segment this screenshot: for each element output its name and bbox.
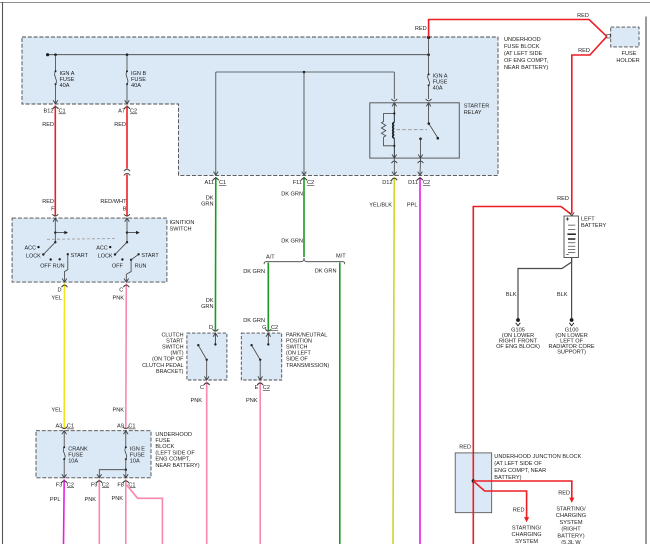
- connector cup P/N G: [265, 329, 271, 331]
- contact OFF (right): [121, 258, 123, 260]
- svg-text:ACC: ACC: [25, 245, 37, 251]
- ignition right blade pivot: [126, 241, 128, 243]
- ground G105: [516, 318, 520, 322]
- label D11 C2: [408, 180, 430, 186]
- label G100: [549, 328, 595, 356]
- svg-text:D: D: [57, 287, 61, 293]
- wire DK GRN M/T branch down: [339, 263, 341, 544]
- svg-text:START: START: [141, 253, 159, 259]
- svg-text:FUSE: FUSE: [622, 51, 637, 57]
- svg-text:TRANSMISSION): TRANSMISSION): [286, 363, 329, 369]
- svg-text:C1: C1: [67, 424, 74, 430]
- terminal arrow relay switch entry: [426, 103, 431, 110]
- svg-text:BLK: BLK: [557, 292, 568, 298]
- svg-text:SIDE OF: SIDE OF: [286, 357, 308, 363]
- svg-text:SWITCH: SWITCH: [286, 345, 308, 351]
- contact LOCK (right): [114, 253, 116, 255]
- ignition right blade: [115, 242, 127, 254]
- underhood junction block box: [455, 453, 492, 513]
- label A7 C2: [118, 109, 137, 115]
- underhood fuse block label (top right): [504, 37, 549, 71]
- contact START (left): [67, 253, 69, 255]
- terminal arrow relay contact exit: [418, 155, 423, 159]
- terminal arrow P/N G: [266, 333, 271, 344]
- battery minus sign: [566, 254, 569, 256]
- svg-text:GRN: GRN: [201, 304, 213, 310]
- connector cup F8: [123, 481, 129, 483]
- wire P/N pivot to E: [259, 360, 261, 380]
- relay coil: [393, 110, 395, 158]
- fuse holder label: [616, 51, 639, 64]
- terminal arrow P/N E: [258, 376, 263, 380]
- wire A3 to crank fuse: [63, 431, 65, 447]
- wire RED branch to starting system: [473, 481, 526, 518]
- svg-text:BATTERY): BATTERY): [557, 533, 584, 539]
- wire RED through junction block: [472, 453, 474, 544]
- terminal arrow D: [62, 279, 67, 283]
- svg-text:FUSE: FUSE: [155, 438, 170, 444]
- fuse IGN A 40A: [55, 72, 57, 85]
- svg-text:CHARGING: CHARGING: [512, 532, 542, 538]
- svg-text:C1: C1: [59, 109, 66, 115]
- svg-text:B12: B12: [44, 109, 54, 115]
- svg-text:YEL/BLK: YEL/BLK: [369, 203, 392, 209]
- wire feed to A11: [215, 72, 217, 175]
- label G C2: [262, 325, 278, 331]
- connector cup relay contact exit: [418, 161, 424, 163]
- wire relay coil exit to D12: [393, 158, 395, 175]
- connector cup F11: [301, 178, 307, 180]
- svg-text:STARTING/: STARTING/: [556, 507, 586, 513]
- svg-text:D: D: [209, 325, 213, 331]
- fuse IGN A 40A (relay feed): [428, 74, 430, 85]
- terminal arrow B12: [53, 100, 58, 104]
- park/neutral position switch box: [241, 333, 281, 380]
- node ignition left: [54, 231, 56, 233]
- fuse IGN E 10A: [125, 448, 127, 460]
- svg-text:BATTERY: BATTERY: [581, 223, 607, 229]
- ignition right feed arrow: [127, 232, 137, 234]
- svg-text:RED: RED: [558, 491, 570, 497]
- ignition switch box: [12, 218, 167, 282]
- svg-text:CHARGING: CHARGING: [556, 513, 586, 519]
- terminal arrow D11: [418, 172, 423, 176]
- svg-text:OFF: OFF: [112, 264, 124, 270]
- terminal arrow A11: [214, 172, 219, 176]
- ignition left feed arrow: [55, 232, 65, 234]
- connector cup P/N E: [257, 383, 263, 385]
- svg-text:40A: 40A: [433, 86, 443, 92]
- svg-text:SUPPORT): SUPPORT): [557, 350, 586, 356]
- node junction block: [472, 479, 475, 482]
- node bus/IGN A fuse: [54, 53, 57, 56]
- terminal arrow relay coil exit: [392, 155, 397, 159]
- svg-text:10A: 10A: [68, 459, 78, 465]
- terminal arrow clutch D: [213, 333, 218, 344]
- svg-text:NEAR BATTERY): NEAR BATTERY): [155, 463, 199, 469]
- label F8 C1: [117, 482, 135, 488]
- svg-text:PNK: PNK: [190, 398, 202, 404]
- labels ignition left positions: [25, 245, 89, 269]
- fuse CRANK 10A: [63, 448, 65, 460]
- ignition switch label: [170, 220, 195, 233]
- terminal arrow F8: [124, 474, 129, 478]
- svg-text:POSITION: POSITION: [286, 338, 312, 344]
- svg-text:DK GRN: DK GRN: [281, 239, 303, 245]
- contact LOCK (left): [42, 253, 44, 255]
- connector cup A3: [61, 427, 67, 429]
- svg-text:(ON TOP OF: (ON TOP OF: [152, 357, 184, 363]
- ignition left common stem: [54, 218, 56, 242]
- svg-text:PPL: PPL: [407, 203, 418, 209]
- terminal arrow D12: [392, 172, 397, 176]
- svg-text:CLUTCH: CLUTCH: [161, 332, 183, 338]
- page border top: [0, 2, 650, 4]
- svg-text:GRN: GRN: [201, 202, 213, 208]
- ignition left START wire to D: [65, 254, 68, 282]
- svg-text:ENG COMPT, NEAR: ENG COMPT, NEAR: [494, 468, 546, 474]
- svg-text:C2: C2: [307, 180, 314, 186]
- svg-text:STARTER: STARTER: [464, 104, 490, 110]
- svg-text:C2: C2: [271, 325, 278, 331]
- connector cup F9 (overlay): [96, 481, 102, 483]
- svg-text:B: B: [123, 207, 127, 213]
- label A11 C1: [204, 180, 226, 186]
- P/N blade tip: [250, 344, 252, 346]
- ignition right common stem: [126, 218, 128, 242]
- P/N contact (from G): [267, 343, 269, 345]
- svg-text:OF ENG BLOCK): OF ENG BLOCK): [496, 344, 540, 350]
- connector cup F8 (overlay): [123, 481, 129, 483]
- svg-text:A3: A3: [55, 424, 62, 430]
- contact ACC (right): [109, 246, 111, 248]
- bus end dot: [46, 53, 49, 56]
- label DK GRN (A11 bottom): [201, 298, 214, 310]
- wire fuse IGN A to B12: [55, 84, 57, 104]
- P/N blade: [252, 345, 261, 360]
- node coil bottom: [393, 145, 395, 147]
- connector cup A9: [123, 427, 129, 429]
- connector cup relay coil exit: [391, 161, 397, 163]
- connector cup clutch D: [213, 329, 219, 331]
- svg-text:LOCK: LOCK: [26, 254, 41, 260]
- connector cup ignition F: [52, 214, 58, 216]
- battery plates: [567, 225, 576, 252]
- svg-text:SYSTEM: SYSTEM: [515, 539, 538, 544]
- svg-text:E: E: [255, 385, 259, 391]
- svg-text:A9: A9: [117, 424, 124, 430]
- wire clutch pivot to C: [206, 360, 208, 380]
- clutch blade pivot: [206, 359, 208, 361]
- svg-text:C2: C2: [130, 109, 137, 115]
- relay switch pivot: [428, 110, 430, 123]
- relay resistor (parallel): [381, 114, 394, 146]
- node ignition right: [126, 231, 128, 233]
- wire RED fuse holder to battery: [572, 36, 607, 213]
- wire BLK battery negative: [518, 258, 572, 319]
- connector cup F3: [61, 481, 67, 483]
- svg-text:C: C: [200, 385, 204, 391]
- wire DK GRN F11 to branch: [303, 177, 305, 257]
- svg-text:PARK/NEUTRAL: PARK/NEUTRAL: [286, 332, 327, 338]
- starter relay box: [370, 103, 460, 158]
- svg-text:C1: C1: [219, 180, 226, 186]
- ignition left blade pivot: [54, 241, 56, 243]
- svg-text:A11: A11: [204, 180, 214, 186]
- label F3 C2: [56, 482, 74, 488]
- terminal arrow clutch C: [204, 376, 209, 380]
- label G105: [496, 328, 540, 351]
- wire PNK P/N E down: [259, 382, 261, 544]
- svg-text:RED: RED: [459, 445, 471, 451]
- terminal arrow A7: [125, 100, 130, 104]
- svg-text:C2: C2: [263, 385, 270, 391]
- relay switch contact: [419, 138, 422, 141]
- terminal arrow battery positive: [570, 212, 575, 216]
- connector cup clutch C (overlay): [204, 383, 210, 385]
- svg-text:LOCK: LOCK: [98, 254, 113, 260]
- svg-text:PNK: PNK: [112, 408, 124, 414]
- fuse holder terminal: [607, 35, 610, 38]
- wire PNK F8 branch jog: [126, 484, 163, 544]
- svg-text:START: START: [166, 338, 184, 344]
- connector cup A7: [124, 107, 130, 109]
- ignition left blade: [43, 242, 55, 254]
- svg-text:SYSTEM: SYSTEM: [559, 520, 582, 526]
- terminal arrow relay coil entry: [392, 103, 397, 110]
- underhood junction block label: [494, 454, 581, 481]
- svg-text:BATTERY): BATTERY): [494, 475, 521, 481]
- connector cup F9: [96, 481, 102, 483]
- wire red feed drop to relay switch: [428, 37, 430, 73]
- node IGN E branch: [125, 469, 127, 471]
- connector cup A11: [213, 178, 219, 180]
- node bus/relay feed: [427, 53, 430, 56]
- svg-text:RED: RED: [513, 508, 525, 514]
- svg-text:D12: D12: [382, 180, 392, 186]
- ignition mechanical coupling (dashed): [47, 238, 115, 241]
- svg-text:F11: F11: [293, 180, 302, 186]
- svg-text:RED: RED: [577, 13, 589, 19]
- svg-text:F9: F9: [91, 482, 98, 488]
- connector cup F11 (overlay): [301, 178, 307, 180]
- svg-text:F: F: [51, 207, 55, 213]
- svg-text:F8: F8: [117, 482, 124, 488]
- svg-text:START: START: [71, 253, 89, 259]
- battery plus sign: [566, 217, 569, 220]
- terminal arrow F3: [62, 474, 67, 478]
- labels ignition right positions: [96, 245, 159, 269]
- svg-text:RED: RED: [42, 122, 54, 128]
- svg-text:PNK: PNK: [84, 497, 96, 503]
- label DK GRN (A11 top): [201, 196, 214, 208]
- branch bracket A/T M/T: [264, 258, 345, 264]
- svg-text:D11: D11: [408, 180, 418, 186]
- svg-text:(AT LEFT SIDE OF: (AT LEFT SIDE OF: [494, 461, 542, 467]
- wire PNK clutch C down: [206, 382, 208, 544]
- svg-text:PNK: PNK: [111, 496, 123, 502]
- svg-text:C1: C1: [128, 424, 135, 430]
- clutch start switch box: [187, 333, 227, 380]
- svg-text:FUSE BLOCK: FUSE BLOCK: [504, 44, 540, 50]
- contact ACC (left): [37, 246, 39, 248]
- svg-text:(RIGHT: (RIGHT: [561, 527, 581, 533]
- svg-text:PPL: PPL: [50, 497, 61, 503]
- terminal arrow F11: [302, 172, 307, 176]
- wire PPL F3 down: [63, 480, 66, 544]
- svg-text:F3: F3: [56, 482, 63, 488]
- svg-text:OFF: OFF: [40, 264, 52, 270]
- svg-text:RUN: RUN: [135, 263, 147, 269]
- wire PNK F9 down: [98, 480, 100, 544]
- connector cup ignition D (overlay): [62, 285, 68, 287]
- svg-text:A/T: A/T: [266, 254, 275, 260]
- ground G100: [570, 318, 574, 322]
- relay switch blade: [429, 124, 438, 138]
- wire RED B12 to ignition F: [54, 106, 56, 217]
- svg-text:(5.3L W: (5.3L W: [561, 540, 581, 544]
- node coil top: [393, 112, 395, 114]
- wire IGN E fuse to F8: [125, 459, 127, 478]
- wire RED diag into battery: [561, 207, 571, 215]
- svg-text:10A: 10A: [130, 459, 140, 465]
- svg-text:BLK: BLK: [506, 292, 517, 298]
- terminal arrow A9: [124, 431, 129, 435]
- connector cup F3 (overlay): [61, 481, 67, 483]
- wire crank fuse to F3: [63, 459, 65, 478]
- underhood fuse block (lower, dashed): [36, 431, 151, 478]
- clutch blade tip: [197, 344, 199, 346]
- label B12 C1: [44, 109, 66, 115]
- wire feed to relay coil: [393, 72, 395, 99]
- clutch blade: [198, 345, 206, 360]
- node feed/F11: [303, 71, 306, 74]
- svg-text:RELAY: RELAY: [464, 110, 482, 116]
- svg-text:M/T: M/T: [336, 253, 346, 259]
- wire bus to fuse IGN A: [55, 55, 57, 71]
- page border left: [2, 2, 4, 544]
- wire RED/WHT splice to ignition B: [126, 175, 128, 217]
- node red entry: [427, 36, 430, 39]
- wire branch to F9: [99, 470, 126, 478]
- clutch contact (from D): [214, 343, 216, 345]
- terminal arrow C: [124, 279, 129, 283]
- label A9 C1: [117, 424, 135, 430]
- bus wire inside fuse block: [48, 54, 429, 56]
- arrow to starting/charging (right battery): [569, 498, 574, 503]
- svg-text:IGNITION: IGNITION: [170, 220, 195, 226]
- terminal arrow ignition F: [53, 218, 58, 222]
- svg-text:UNDERHOOD JUNCTION BLOCK: UNDERHOOD JUNCTION BLOCK: [494, 454, 581, 460]
- connector cup relay switch entry: [426, 99, 432, 101]
- connector cup overlays (drawn above wires): [53, 107, 423, 483]
- svg-text:YEL: YEL: [51, 296, 62, 302]
- wire RED battery to junction block: [473, 207, 561, 454]
- label A3 C1: [55, 424, 74, 430]
- arrow to starting/charging: [524, 517, 529, 522]
- svg-text:C2: C2: [67, 482, 74, 488]
- svg-text:ENG COMPT,: ENG COMPT,: [155, 457, 190, 463]
- svg-text:RED: RED: [415, 26, 427, 32]
- svg-text:HOLDER: HOLDER: [616, 58, 639, 64]
- svg-text:DK GRN: DK GRN: [243, 269, 265, 275]
- svg-text:(AT LEFT SIDE: (AT LEFT SIDE: [504, 51, 543, 57]
- connector cup D12 (overlay): [391, 178, 397, 180]
- ignition right START wire to C: [126, 254, 138, 282]
- connector cup A7 (overlay): [124, 107, 130, 109]
- connector cup A11 (overlay): [213, 178, 219, 180]
- fuse holder box: [611, 27, 639, 47]
- svg-text:DK GRN: DK GRN: [315, 268, 337, 274]
- starter relay label: [464, 104, 490, 117]
- svg-text:RED: RED: [114, 122, 126, 128]
- wire PNK C to A9: [125, 283, 128, 429]
- wire relay contact exit to D11: [419, 158, 422, 175]
- svg-text:NEAR BATTERY): NEAR BATTERY): [504, 65, 548, 71]
- svg-text:SWITCH: SWITCH: [162, 345, 184, 351]
- svg-text:(ON LEFT: (ON LEFT: [286, 351, 311, 357]
- connector cup ignition C (overlay): [123, 285, 129, 287]
- page border right: [645, 17, 647, 544]
- svg-text:RED: RED: [557, 196, 569, 202]
- svg-text:(M/T): (M/T): [171, 351, 184, 357]
- svg-text:CLUTCH PEDAL: CLUTCH PEDAL: [142, 363, 183, 369]
- label starting/charging right battery: [556, 507, 586, 544]
- left battery box: [564, 216, 578, 258]
- contact RUN (left): [59, 258, 61, 260]
- contact RUN (right): [130, 259, 132, 261]
- svg-text:OF ENG COMPT,: OF ENG COMPT,: [504, 58, 549, 64]
- contact OFF (left): [50, 258, 52, 260]
- node bus/IGN B fuse: [126, 53, 129, 56]
- connector cup D12: [391, 178, 397, 180]
- connector cup B12 (overlay): [53, 107, 59, 109]
- contact START (right): [137, 253, 139, 255]
- connector cup D11 (overlay): [417, 178, 423, 180]
- fuse IGN B 40A: [126, 72, 128, 85]
- underhood fuse block (top, dashed outline): [22, 37, 498, 175]
- relay mechanical link (dashed): [397, 129, 428, 131]
- wire YEL D to A3: [63, 283, 65, 429]
- svg-text:BRACKET): BRACKET): [156, 369, 184, 375]
- svg-text:C2: C2: [102, 482, 109, 488]
- wire RED battery feed to fuse holder (top): [429, 20, 607, 38]
- inline connector on A7 wire: [124, 169, 130, 175]
- svg-text:RED/WHT: RED/WHT: [100, 199, 127, 205]
- connector cup B12: [53, 107, 59, 109]
- wire YEL/BLK D12 down: [393, 177, 394, 544]
- wire BLK to G100: [571, 258, 573, 319]
- wire PPL D11 down: [419, 177, 421, 544]
- wire RED A7 to splice: [126, 106, 128, 169]
- wire DK GRN A/T branch to G: [267, 263, 269, 332]
- svg-text:DK GRN: DK GRN: [243, 318, 265, 324]
- connector cup P/N E (overlay): [257, 383, 263, 385]
- connector cup clutch C: [204, 383, 210, 385]
- P/N blade pivot: [259, 359, 261, 361]
- svg-text:LEFT: LEFT: [581, 217, 595, 223]
- label F9 C2: [91, 482, 109, 488]
- underhood fuse block (lower) label: [155, 432, 199, 469]
- connector cup D11: [417, 178, 423, 180]
- wire fuse to relay switch entry: [428, 85, 430, 99]
- svg-text:SWITCH: SWITCH: [170, 227, 192, 233]
- label E C2: [255, 385, 270, 391]
- svg-text:40A: 40A: [60, 83, 70, 89]
- svg-text:ACC: ACC: [96, 245, 108, 251]
- wire fuse IGN B to A7: [126, 84, 128, 104]
- svg-text:DK GRN: DK GRN: [281, 192, 303, 198]
